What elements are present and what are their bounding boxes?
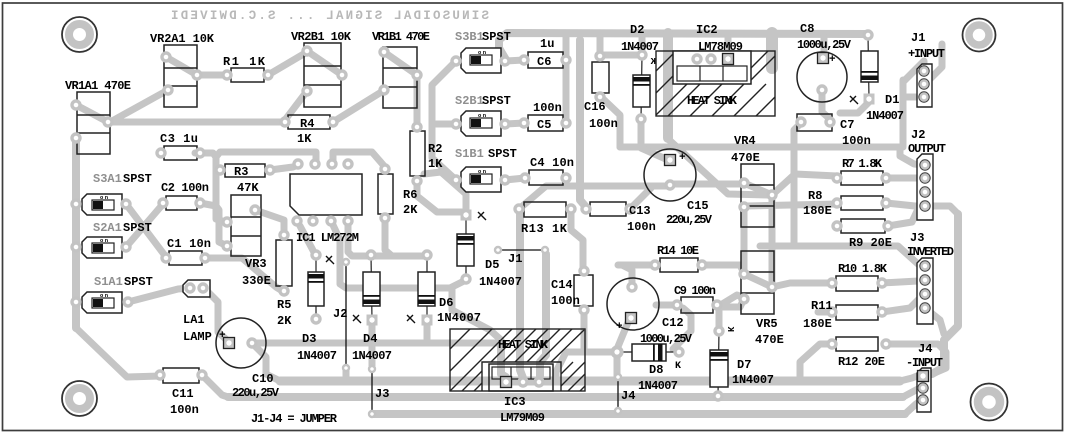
switch S1B1 [461,167,501,192]
wire run corner to J2 pad1 [900,147,925,165]
wire VR2A1 to VR1A1 [112,90,168,121]
electrolytic C15 [644,149,696,201]
wire y246 bus [760,246,925,266]
switch S3A1 [82,194,122,215]
svg-text:S3B1: S3B1 [455,30,484,44]
capacitor C1 [169,251,202,265]
svg-text:100n: 100n [589,117,618,131]
svg-text:2K: 2K [403,203,418,217]
wire C2 right to VR3 [200,203,227,246]
switch S3B1 [461,48,501,73]
svg-text:1N4007: 1N4007 [437,311,481,325]
wire R11 left stub [818,309,832,316]
wire R10 right to J3 [882,280,925,283]
resistor R1 [231,68,264,82]
svg-text:100n: 100n [170,403,199,417]
trimmer VR4 [741,164,774,227]
wire VR4 RM diag to R7 [772,174,837,195]
svg-text:1000u,25V: 1000u,25V [797,38,852,52]
wire IC2 to VR4 wiper [667,138,768,195]
wire left vertical bus [72,140,80,328]
wire D8 left to J4 jumper [614,352,621,377]
svg-text:on: on [478,168,486,175]
wire R14 right to VR5 [702,265,744,273]
svg-text:C1 10n: C1 10n [167,237,211,251]
svg-text:C7: C7 [840,118,854,132]
diode D7 [718,331,719,396]
svg-text:C16: C16 [584,100,606,114]
wire VR2B1 to R4 [285,91,307,120]
wire IC2 left drop [663,33,673,138]
wire R13 left vertical to IC3 [520,211,523,378]
wire VR2B1 wiper [307,51,342,75]
wire D2 bottom to C15 [641,119,668,160]
wire C1 right to R5 bottom [205,258,284,292]
wire C12 square to D8 [617,320,629,349]
mounting hole bottom-right [971,384,1008,421]
diode D6 [426,255,428,320]
wire bus drop IC2 [725,37,732,53]
svg-text:1K: 1K [297,132,312,146]
svg-text:S2B1: S2B1 [455,94,484,108]
svg-text:D4: D4 [363,332,377,346]
wire R12 right to J4 [886,344,946,374]
svg-text:on: on [100,237,108,244]
wire bottom bus B [228,393,903,401]
trimmer VR2A1 [164,45,197,107]
svg-text:D2: D2 [630,23,644,37]
wire R12 left diagonal [800,344,832,381]
svg-text:SPST: SPST [123,221,152,235]
resistor R12 [836,337,878,351]
svg-text:VR2A1 10K: VR2A1 10K [150,32,215,46]
svg-text:SPST: SPST [124,275,153,289]
svg-text:220u,25V: 220u,25V [666,213,713,227]
wire S1A1 to LA1 [128,288,190,302]
svg-text:220u,25V: 220u,25V [232,386,280,400]
svg-text:180E: 180E [803,317,832,331]
svg-text:R4: R4 [300,117,314,131]
jumper J1 [498,249,545,251]
svg-text:J2: J2 [911,128,925,142]
svg-text:180E: 180E [803,204,832,218]
wire D1 square down [840,102,869,113]
electrolytic C8 [797,52,847,102]
wire D3 top diagonal [300,226,316,256]
electrolytic C10 [216,318,266,368]
svg-text:100n: 100n [842,134,871,148]
wire D5 square up [424,172,466,210]
wire heat sink pin1 vertical [501,343,506,377]
capacitor C7 [797,114,832,131]
svg-text:+: + [829,54,836,66]
wire C14 bottom [581,310,588,352]
wire R7 right to J2 [886,175,918,182]
resistor R11 [836,305,878,320]
svg-text:K: K [675,361,681,372]
wire C10 ring to bus A [252,343,280,381]
wire IC1 pin to D4 D6 run [348,224,427,256]
svg-text:1N4007: 1N4007 [732,373,774,387]
svg-text:VR3: VR3 [245,257,267,271]
diode D5 [465,215,467,279]
svg-text:C8: C8 [800,22,814,36]
wire VR4 LB to VR5 LT [741,207,748,274]
wire IC2 right drop [766,33,778,68]
wire switch to C5 [505,123,524,124]
wire R13 left diagonal to C15 run [519,186,668,209]
svg-text:OUTPUT: OUTPUT [908,142,946,156]
wire IC1 pin to D5 run [333,225,464,288]
svg-text:R6: R6 [403,188,417,202]
connector J2 [917,154,933,220]
wire R5 top to VR3 [258,211,284,236]
svg-text:C5: C5 [537,118,551,132]
resistor R14 [660,258,698,272]
trimmer VR5 [741,251,774,314]
diode D3 [315,255,317,319]
wire R9 right to J2 [888,196,924,226]
svg-text:+INPUT: +INPUT [908,47,945,61]
svg-text:2K: 2K [277,314,292,328]
svg-text:LM78M09: LM78M09 [698,40,743,54]
mounting hole bottom-left [62,381,97,416]
svg-text:SPST: SPST [482,94,511,108]
svg-text:C9 100n: C9 100n [674,284,716,298]
wire bus A end to J4 [900,376,917,381]
wire C9 left stub [656,302,676,309]
svg-text:on: on [478,49,486,56]
wire C16 top to D2 top [601,52,640,59]
svg-text:R13 1K: R13 1K [521,222,568,236]
x-mark D1 [850,96,858,104]
resistor R3 [225,164,265,177]
connector J4 [917,368,931,412]
svg-text:1N4007: 1N4007 [352,349,392,363]
wire D7 top to VR5 [719,295,744,328]
trimmer VR3 [231,195,261,256]
wire VR2A1 to R1 [197,72,227,79]
wire bottom bus A [280,377,900,386]
mounting hole top-right [963,19,996,52]
svg-text:IC1 LM272M: IC1 LM272M [296,231,359,245]
svg-text:470E: 470E [731,151,760,165]
wire VR4 RM to VR5 RM [769,195,776,287]
x-mark D6 [407,315,415,323]
svg-text:K: K [650,57,656,67]
wire bus C end [905,401,920,414]
wire C16-C13 vertical [580,40,586,207]
svg-text:HEAT SINK: HEAT SINK [687,94,738,108]
svg-text:J4: J4 [621,389,635,403]
svg-text:SPST: SPST [123,172,152,186]
svg-text:R5: R5 [277,298,291,312]
capacitor C16 [592,62,609,93]
diode D8 [617,351,679,353]
wire C8 ring to C7 [822,91,830,119]
capacitor C6 [528,52,563,68]
wire J1 diagonal [903,61,924,82]
resistor R2 [410,131,425,176]
wire VR2A1 wiper [166,57,197,75]
svg-text:R10 1.8K: R10 1.8K [838,262,888,276]
wire VR4 wiper internal [744,183,772,195]
svg-text:S1A1: S1A1 [94,275,123,289]
svg-text:R14 10E: R14 10E [657,244,699,258]
svg-text:1N4007: 1N4007 [621,40,659,54]
resistor R8 [841,196,883,210]
wire S3A1 to C1 diagonal [126,204,166,257]
svg-text:C13: C13 [629,204,651,218]
capacitor C2 [166,196,197,210]
wire R3 right to IC1 [270,165,298,170]
resistor R5 [276,240,292,286]
switch S1A1 [82,292,122,313]
switch S2A1 [82,237,122,258]
wire R14 left [618,262,655,269]
svg-text:100n: 100n [551,294,580,308]
trimmer VR1A1 [77,92,110,154]
regulator IC3 with heat sink [450,329,585,391]
wire R13 right to C14 [571,209,583,270]
svg-text:J4: J4 [918,342,932,356]
capacitor C9 [681,297,713,313]
resistor R7 [841,171,883,185]
wire J1 pad3 vertical [900,80,907,147]
svg-text:C6: C6 [537,55,551,69]
svg-text:+: + [679,152,686,164]
capacitor C11 [163,368,199,383]
diode D2 [641,55,642,119]
wire top bus [499,33,866,58]
x-mark D5 [478,212,486,220]
svg-text:D1: D1 [885,93,899,107]
svg-text:C2 100n: C2 100n [161,181,209,195]
wire J2 pad4 to vertical [925,206,958,214]
svg-text:J1: J1 [508,252,522,266]
svg-text:R1 1K: R1 1K [223,55,266,69]
capacitor C3 [164,146,197,160]
svg-text:R7 1.8K: R7 1.8K [842,157,883,171]
wire VR1A1 to R4 horizontal [108,119,285,126]
wire switch to C6 [505,60,524,61]
svg-text:R2: R2 [428,142,442,156]
wire C12 ring up [622,265,632,286]
wire S2A1 to C2 diagonal [126,204,163,247]
wire R6 bottom [385,218,392,256]
wire S2B1 left [432,121,456,128]
svg-text:470E: 470E [755,333,784,347]
svg-text:LA1: LA1 [183,313,205,327]
svg-text:on: on [100,194,108,201]
svg-text:R12 20E: R12 20E [838,355,885,369]
mounting hole top-left [62,17,97,52]
svg-text:VR1B1 470E: VR1B1 470E [372,30,430,44]
svg-text:S2A1: S2A1 [93,221,122,235]
wire J2 jumper bottom [343,368,350,381]
svg-text:C14: C14 [551,278,573,292]
electrolytic C12 [607,278,659,330]
wire switch to C4 [505,178,525,180]
svg-text:J1-J4 = JUMPER: J1-J4 = JUMPER [251,412,338,426]
svg-text:100n: 100n [533,101,562,115]
svg-text:R11: R11 [811,299,833,313]
wire R1 to VR2B1 [268,52,307,75]
lamp LA1 [183,280,210,297]
svg-text:1N4007: 1N4007 [479,275,522,289]
connector J1 [917,64,932,107]
capacitor C5 [528,115,563,131]
jumper J2 [345,262,347,368]
wire C16 bottom diagonal [600,96,620,147]
wire D5 branch down [452,288,501,340]
resistor R6 [378,174,393,214]
svg-text:J3: J3 [375,387,389,401]
wire VR1A1 wiper [76,105,108,122]
svg-text:1N4007: 1N4007 [866,109,904,123]
svg-text:on: on [100,292,108,299]
resistor R10 [836,276,878,291]
wire D4 square down to J3 [369,324,376,366]
wire LA1 right to C10 [204,288,229,342]
svg-text:VR2B1 10K: VR2B1 10K [291,30,352,44]
wire C10 right horizontal [252,340,501,347]
wire VR5 wiper internal [744,274,772,287]
svg-text:IC3: IC3 [504,395,526,409]
resistor R4 [288,115,330,129]
wire C3 right to VR3 [195,153,225,222]
wire R11 right to J3 [882,296,922,312]
wire C7 left vertical [794,123,801,246]
svg-text:S3A1: S3A1 [93,172,122,186]
capacitor C14 [574,275,593,306]
connector J3 [917,258,933,324]
svg-text:-INPUT: -INPUT [906,356,943,370]
wire R8 right to J2 [886,203,922,206]
trimmer VR1B1 [383,47,417,108]
svg-text:INVERTED: INVERTED [907,245,954,259]
svg-text:1K: 1K [428,157,443,171]
wire VR1B1 to R2 [414,75,421,127]
wire R4 to VR1B1 [333,91,383,122]
svg-text:SPST: SPST [482,30,511,44]
trimmer VR2B1 [304,43,341,107]
wire C6 right to C5 right [563,37,570,123]
svg-text:C10: C10 [252,372,274,386]
wire C9 right to VR5 [717,299,744,307]
svg-text:D3: D3 [302,332,316,346]
x-mark D3 [326,256,334,264]
wire bus drop C16 [597,37,604,52]
svg-text:D8: D8 [649,363,663,377]
wire D8 right diagonal [673,308,691,349]
svg-text:LM79M09: LM79M09 [500,411,545,425]
regulator IC2 with heat sink [656,51,775,116]
wire J3 pad4 stub [925,308,944,334]
svg-text:R9 20E: R9 20E [849,236,892,250]
wire left bus to C11 [76,328,160,377]
svg-text:R3: R3 [234,165,248,179]
wire IC1 pin2 up [216,152,316,163]
capacitor C4 [529,170,563,185]
svg-text:+: + [219,330,226,342]
wire right vertical [932,214,958,374]
wire bottom bus C [372,410,905,418]
wire S3B1 left down [432,61,456,180]
svg-text:J1: J1 [911,31,925,45]
svg-text:100n: 100n [627,220,656,234]
wire VR1B1 wiper [384,52,417,75]
svg-text:IC2: IC2 [696,23,718,37]
capacitor C13 [590,202,626,216]
wire R10 left [772,283,832,287]
svg-text:330E: 330E [242,274,271,288]
wire C11 right to bus B [202,375,228,397]
svg-text:+: + [616,321,623,333]
wire R2 bottom to D5 area [417,181,462,212]
svg-text:1N4007: 1N4007 [297,349,337,363]
x-mark D4 [353,315,361,323]
wire J1 right pad down to IC3 [540,254,546,378]
wire D8 left horizontal [556,352,617,381]
svg-text:LAMP: LAMP [183,330,212,344]
wire bus drop C8 [821,37,828,53]
svg-text:C11: C11 [172,387,194,401]
wire bus drop D2 [639,37,646,50]
diode D4 [371,255,372,320]
svg-text:1u: 1u [540,37,554,51]
svg-text:K: K [725,326,735,332]
wire long run to J2 [620,144,900,151]
wire bus B end [903,388,920,397]
svg-text:D6: D6 [439,296,453,310]
wire VR4 LB to R8 [746,204,837,206]
jumper J4 [617,377,619,411]
wire J1 pad2 diagonal [925,44,942,84]
diode D1 [868,35,869,99]
svg-text:VR1A1 470E: VR1A1 470E [65,79,131,93]
svg-text:J3: J3 [910,231,924,245]
wire C15 ring to VR4 [670,181,744,188]
resistor R13 [524,202,566,217]
svg-text:HEAT SINK: HEAT SINK [498,338,549,352]
svg-text:VR4: VR4 [734,134,756,148]
wire J1 pad3 stub [903,94,920,101]
wire C13 right join [630,188,651,209]
svg-text:SPST: SPST [488,147,517,161]
wire D6 square down [424,324,431,343]
svg-text:on: on [478,112,486,119]
svg-text:S1B1: S1B1 [455,147,484,161]
svg-text:C15: C15 [687,199,709,213]
wire IC1 pin3 to R6 [333,152,385,167]
svg-text:C4 10n: C4 10n [530,156,574,170]
svg-text:VR5: VR5 [756,317,778,331]
svg-text:R8: R8 [808,189,822,203]
op-amp IC1 [290,174,362,215]
svg-text:D7: D7 [737,358,751,372]
svg-text:C3 1u: C3 1u [160,132,198,146]
resistor R9 [841,219,885,233]
svg-text:D5: D5 [485,258,499,272]
svg-text:47K: 47K [237,181,259,195]
svg-text:1N4007: 1N4007 [638,379,678,393]
svg-text:C12: C12 [662,316,684,330]
svg-text:J2: J2 [333,307,347,321]
jumper J3 [371,369,373,414]
switch S2B1 [461,111,501,136]
